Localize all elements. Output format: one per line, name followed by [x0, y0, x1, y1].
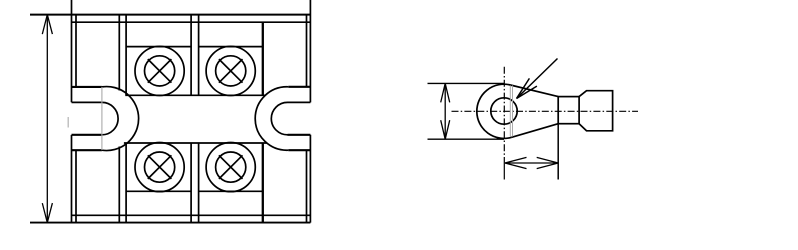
cavity bottom line row2 — [126, 190, 263, 192]
block left outer wall — [71, 0, 73, 223]
barrier line B1 — [190, 15, 192, 223]
junction mark 2 — [512, 86, 514, 137]
left fork slot arc — [102, 102, 118, 134]
arrowhead up — [42, 15, 52, 34]
junction mark 1 — [509, 86, 511, 137]
vertical dim arrow up — [441, 83, 450, 102]
leader arrow shaft — [517, 59, 558, 99]
block right inner wall — [306, 15, 308, 223]
block right outer wall — [309, 0, 311, 223]
right fork tip arc — [255, 87, 288, 150]
vertical dim extension top — [428, 82, 505, 84]
left fork wire stub mark — [67, 117, 69, 128]
dimension extension line bottom — [30, 222, 310, 224]
left fork slot bottom — [72, 134, 102, 136]
block top inner line — [72, 21, 311, 23]
cavity top line row1 — [126, 46, 263, 48]
screw S4 cross — [219, 155, 243, 179]
tongue top tangent — [510, 85, 558, 97]
right fork slot top — [288, 101, 311, 103]
right fork slot arc — [271, 102, 287, 134]
screw S2 cross — [219, 59, 243, 83]
left fork tangent mark — [101, 87, 103, 150]
horizontal center line — [452, 110, 639, 112]
screw S2 outer — [206, 46, 255, 95]
leader arrowhead — [517, 78, 537, 98]
block bottom inner line — [72, 214, 311, 216]
right fork slot bottom — [288, 134, 311, 136]
tongue bottom tangent — [512, 124, 559, 138]
block left inner wall — [75, 15, 77, 223]
ring outer arc — [477, 84, 512, 138]
bottom dim extension left (centerline solid end) — [503, 157, 505, 180]
screw S2 inner — [216, 56, 246, 86]
barrier line C — [262, 22, 264, 222]
dimension line vertical — [46, 15, 48, 223]
bottom dim extension right — [557, 124, 559, 180]
screw S3 outer — [135, 143, 184, 192]
arrowhead down — [42, 203, 52, 223]
screw S1 cross — [148, 59, 172, 83]
right fork terminal tongue — [288, 87, 310, 150]
insulation barrel — [579, 91, 613, 131]
screw S3 cross — [148, 155, 172, 179]
dimension extension line top — [30, 14, 310, 16]
vertical center line — [503, 67, 505, 157]
barrier line B2 — [198, 15, 200, 223]
channel top line — [125, 94, 265, 96]
screw S4 outer — [206, 143, 255, 192]
left fork tip arc — [102, 87, 139, 151]
bottom dim arrow left — [505, 157, 527, 168]
vertical dim arrow down — [441, 120, 450, 139]
channel bottom line — [124, 142, 267, 144]
vertical dim extension bottom — [428, 138, 505, 140]
screw S1 inner — [145, 56, 175, 86]
left fork slot top — [72, 101, 102, 103]
barrier line A1 — [118, 15, 120, 223]
bottom dim line — [505, 162, 558, 164]
barrier line A2 — [125, 15, 127, 223]
ring hole — [491, 98, 517, 124]
neck rectangle — [558, 97, 579, 124]
screw S4 inner — [216, 152, 246, 182]
screw S1 outer — [135, 46, 184, 95]
screw S3 inner — [145, 152, 175, 182]
left fork terminal tongue — [72, 87, 102, 150]
vertical dim line — [444, 83, 446, 139]
bottom dim arrow right — [537, 157, 559, 168]
